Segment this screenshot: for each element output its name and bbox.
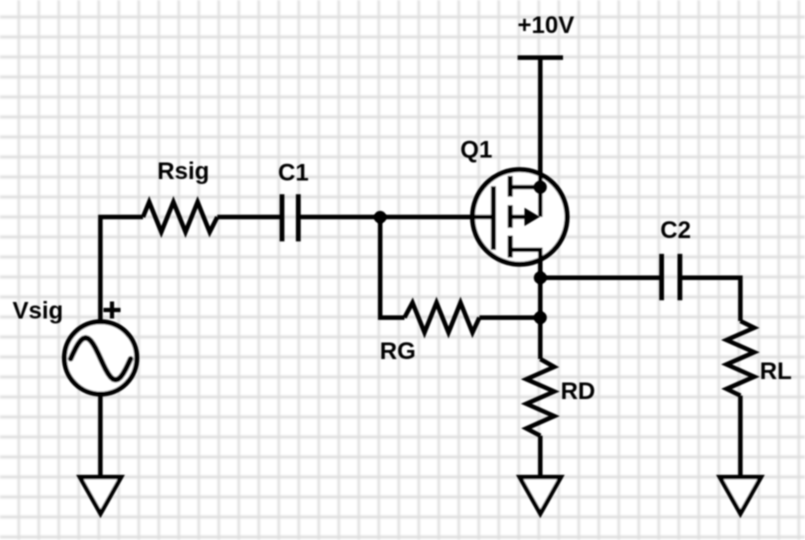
- wire: C2 to RL corner: [680, 278, 741, 321]
- transistor Q1 source tap: [510, 250, 540, 278]
- svg-text:RG: RG: [380, 338, 416, 365]
- wire: Rsig to C1: [217, 215, 282, 220]
- transistor Q1 body arrow head: [525, 208, 540, 226]
- transistor Q1 body circle: [473, 170, 568, 265]
- wire: RL to ground: [738, 396, 743, 477]
- node: gate junction dot: [374, 211, 387, 224]
- transistor Q1 channel bar bottom: [508, 236, 513, 258]
- ground symbol (Vsig): [80, 477, 121, 513]
- svg-text:Rsig: Rsig: [157, 158, 209, 185]
- svg-text:Q1: Q1: [460, 137, 492, 164]
- source Vsig plus sign: [104, 302, 121, 319]
- transistor Q1 channel bar middle: [508, 205, 513, 228]
- svg-text:+10V: +10V: [518, 12, 575, 39]
- wire: source node down through RG node to RD: [538, 278, 543, 359]
- wire: RG to source node: [479, 315, 540, 320]
- resistor RD: [526, 359, 554, 436]
- svg-text:Vsig: Vsig: [13, 298, 64, 325]
- wire: Vsig top to main node corner: [100, 217, 143, 322]
- svg-text:C1: C1: [278, 160, 309, 187]
- resistor RG: [405, 303, 480, 333]
- node: drain junction dot: [534, 181, 547, 194]
- node: source junction dot: [534, 271, 547, 284]
- source Vsig sine wave: [71, 338, 131, 380]
- transistor Q1 channel bar top: [508, 176, 513, 197]
- wire: RD to ground: [538, 436, 543, 477]
- source Vsig body circle: [64, 322, 136, 394]
- capacitor C2: [659, 254, 664, 300]
- wire: +10V down to drain and body arrow tip: [538, 58, 543, 217]
- wire: C1 to gate: [298, 215, 493, 220]
- transistor Q1 gate bar: [491, 186, 496, 250]
- wire: Vsig bottom to ground: [98, 394, 103, 477]
- resistor RL: [727, 321, 755, 396]
- wire: gate node down to RG: [380, 217, 404, 318]
- svg-text:RD: RD: [561, 378, 596, 405]
- capacitor C1: [280, 194, 285, 241]
- ground symbol (RD): [520, 477, 561, 513]
- svg-text:C2: C2: [660, 217, 691, 244]
- svg-text:RL: RL: [760, 358, 792, 385]
- resistor Rsig: [143, 202, 217, 232]
- ground symbol (RL): [720, 477, 761, 513]
- power rail +10V bar: [518, 55, 563, 60]
- node: RG junction dot: [534, 311, 547, 324]
- transistor Q1 drain tap: [510, 185, 540, 190]
- transistor Q1 body tap with arrow: [510, 215, 527, 220]
- wire: source node to C2: [540, 275, 661, 280]
